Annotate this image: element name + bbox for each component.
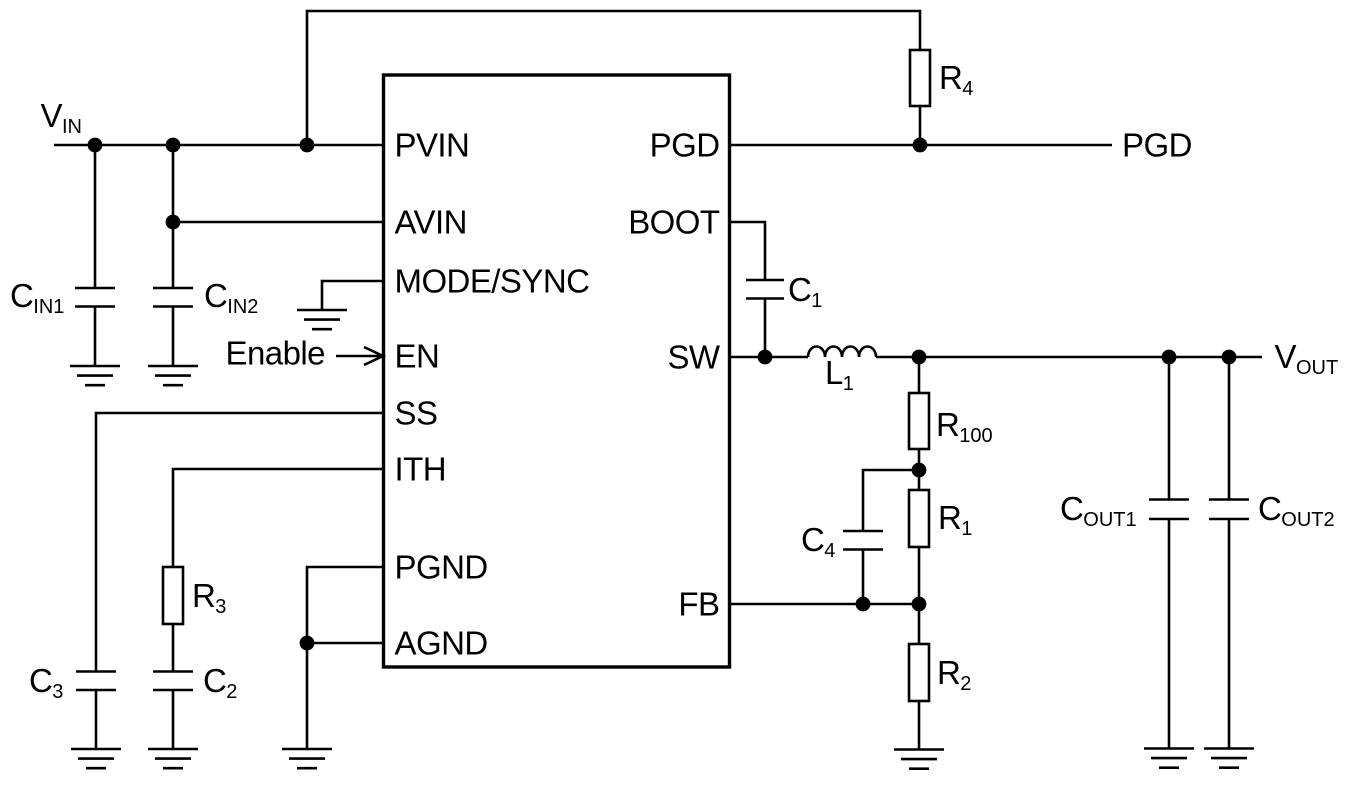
svg-text:OUT1: OUT1 <box>1083 509 1136 531</box>
wire BOOT to C1 <box>729 222 765 357</box>
node VOUT-COUT1 <box>1162 350 1177 365</box>
wire R2 to ground <box>918 604 921 750</box>
svg-text:L: L <box>825 354 843 391</box>
node SW-R100 <box>912 350 927 365</box>
resistor R100 <box>909 393 929 449</box>
ground R2 <box>894 750 944 769</box>
svg-text:R: R <box>936 406 959 443</box>
svg-text:C: C <box>29 662 52 699</box>
node C4-FB <box>856 597 871 612</box>
svg-text:R: R <box>937 654 960 691</box>
svg-text:ITH: ITH <box>395 451 447 488</box>
svg-text:AVIN: AVIN <box>395 204 467 241</box>
wire COUT2 drop <box>1228 357 1231 749</box>
svg-text:OUT: OUT <box>1296 357 1338 379</box>
svg-text:V: V <box>1275 338 1297 375</box>
wire VOUT rail <box>876 356 1262 359</box>
svg-text:3: 3 <box>52 681 63 703</box>
ground C2 <box>148 749 198 768</box>
svg-text:PGND: PGND <box>395 549 488 586</box>
wire MODE/SYNC to ground <box>322 281 383 310</box>
svg-text:C: C <box>203 662 226 699</box>
node R100-R1-C4 <box>912 463 927 478</box>
inductor L1 <box>808 347 876 358</box>
wire ITH to R3 <box>173 469 383 749</box>
wire SW segment <box>729 356 808 359</box>
node VIN-CIN2 <box>166 138 181 153</box>
svg-text:IN1: IN1 <box>33 296 64 318</box>
capacitor C4 plates <box>843 531 883 550</box>
wire CIN2 drop <box>172 145 175 366</box>
op-amp U1 IC body <box>384 75 730 667</box>
svg-text:2: 2 <box>226 681 237 703</box>
ground COUT2 <box>1204 749 1254 768</box>
capacitor CIN1 plates <box>75 288 115 307</box>
capacitor C2 plates <box>153 672 193 691</box>
node R1-R2-FB <box>912 597 927 612</box>
svg-text:PVIN: PVIN <box>395 127 470 164</box>
svg-text:PGD: PGD <box>1122 127 1192 164</box>
ground C3 <box>71 749 121 768</box>
resistor R4 <box>910 50 930 106</box>
capacitor COUT2 plates <box>1209 500 1249 520</box>
resistor R1 <box>909 490 929 547</box>
svg-text:BOOT: BOOT <box>628 204 720 241</box>
node AVIN-CIN2 <box>166 215 181 230</box>
wire FB <box>729 603 919 606</box>
svg-text:C: C <box>801 521 824 558</box>
wire SW to R100 <box>918 357 921 470</box>
capacitor CIN2 plates <box>153 288 193 307</box>
svg-text:R: R <box>192 577 215 614</box>
svg-text:C: C <box>788 271 811 308</box>
wire top feedback loop <box>307 11 920 145</box>
wire AGND to ground <box>307 643 383 749</box>
node VIN-CIN1 <box>88 138 103 153</box>
svg-text:100: 100 <box>959 425 992 447</box>
svg-text:1: 1 <box>811 290 822 312</box>
svg-text:IN2: IN2 <box>227 296 258 318</box>
wire VIN rail <box>54 144 383 147</box>
resistor R2 <box>909 644 929 701</box>
svg-text:FB: FB <box>678 586 719 623</box>
wire Enable arrowhead <box>364 347 383 365</box>
wire C4 branch <box>863 470 919 604</box>
resistor R3 <box>163 567 183 624</box>
svg-text:C: C <box>1060 490 1083 527</box>
svg-text:SS: SS <box>395 395 438 432</box>
capacitor COUT1 plates <box>1149 500 1189 520</box>
svg-text:C: C <box>204 277 227 314</box>
svg-text:IN: IN <box>62 116 82 138</box>
ground CIN1 <box>70 366 120 385</box>
svg-text:Enable: Enable <box>226 335 325 372</box>
node VIN-top-loop <box>300 138 315 153</box>
wire PGD net <box>729 144 1112 147</box>
wire R4 to PGD <box>919 106 922 145</box>
ground CIN2 <box>148 366 198 385</box>
svg-text:1: 1 <box>843 373 854 395</box>
svg-text:C: C <box>1258 490 1281 527</box>
svg-text:V: V <box>41 97 63 134</box>
wire PGND <box>307 567 383 643</box>
wire SS to C3 <box>96 413 383 749</box>
svg-text:MODE/SYNC: MODE/SYNC <box>395 263 590 300</box>
node C1-SW <box>758 350 773 365</box>
wire Enable arrow shaft <box>336 355 383 358</box>
wire COUT1 drop <box>1168 357 1171 749</box>
svg-text:PGD: PGD <box>650 127 720 164</box>
wire CIN1 drop <box>94 145 97 366</box>
wire AVIN <box>173 221 383 224</box>
svg-text:R: R <box>938 499 961 536</box>
ground AGND <box>282 749 332 768</box>
node VOUT-COUT2 <box>1222 350 1237 365</box>
svg-text:C: C <box>10 277 33 314</box>
svg-text:4: 4 <box>962 78 973 100</box>
svg-text:EN: EN <box>395 338 440 375</box>
svg-text:4: 4 <box>824 540 835 562</box>
svg-text:2: 2 <box>960 673 971 695</box>
capacitor C3 plates <box>76 672 116 691</box>
svg-text:AGND: AGND <box>395 625 488 662</box>
svg-text:SW: SW <box>667 339 720 376</box>
capacitor C1 plates <box>746 280 784 299</box>
node AGND junction <box>300 636 315 651</box>
svg-text:R: R <box>939 59 962 96</box>
node R4-PGD <box>913 138 928 153</box>
svg-text:1: 1 <box>961 518 972 540</box>
svg-text:3: 3 <box>215 596 226 618</box>
ground MODE/SYNC <box>297 310 347 329</box>
svg-text:OUT2: OUT2 <box>1281 509 1334 531</box>
ground COUT1 <box>1144 749 1194 768</box>
wire R1 chain <box>918 470 921 604</box>
